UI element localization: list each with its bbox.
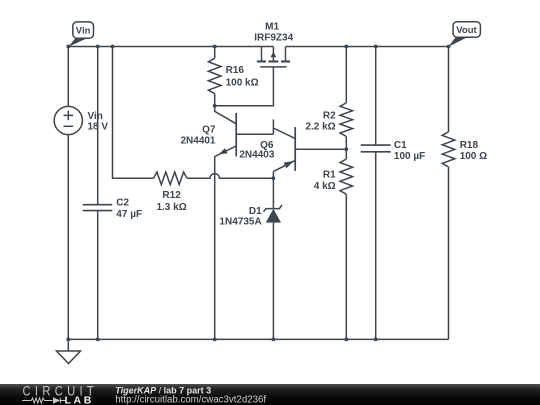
svg-text:18 V: 18 V [88,122,109,133]
wire R1 bottom lead [345,194,347,339]
svg-text:Vin: Vin [88,111,103,122]
svg-text:R18: R18 [460,140,479,151]
node Vout [447,45,451,49]
MOSFET M1 bulk stub [272,47,274,61]
MOSFET M1 gate plate [260,66,286,68]
svg-text:C2: C2 [116,198,129,209]
ground symbol [67,339,69,351]
capacitor C1 plates [361,145,391,152]
wire R18 top lead [448,47,450,132]
zener diode D1 cathode bar [264,205,283,212]
MOSFET M1 contact bar 2 [269,60,279,62]
svg-text:1N4735A: 1N4735A [219,216,261,227]
zener diode D1 anode triangle [266,209,281,223]
junction D1 / ground rail [272,338,276,342]
transistor Q6 collector lead [273,128,295,139]
svg-text:Vout: Vout [456,25,477,36]
svg-text:C1: C1 [394,140,407,151]
svg-text:R1: R1 [323,170,336,181]
transistor Q7 base bar [235,113,237,156]
svg-text:100 kΩ: 100 kΩ [226,77,259,88]
transistor Q7 emitter lead [215,146,237,339]
junction R12 branch / top rail [111,45,115,49]
svg-text:2N4401: 2N4401 [180,136,215,147]
svg-text:4 kΩ: 4 kΩ [314,181,336,192]
wire Q6 collector to Q7 base node [272,119,274,134]
wire top rail right (M1 drain to Vout node) [286,46,449,48]
transistor Q7 emitter arrow [219,148,228,154]
MOSFET M1 source stub [261,47,263,61]
wire C1 bottom lead [375,152,377,339]
svg-text:1.3 kΩ: 1.3 kΩ [156,202,186,213]
junction Q7 emitter / ground rail [213,338,217,342]
resistor R12 [154,172,188,185]
transistor Q6 base bar [294,127,296,171]
junction R2 / top rail [344,45,348,49]
resistor R16 [208,58,221,93]
junction C1 / ground rail [374,338,378,342]
wire gate node to M1 gate [215,67,274,106]
wire Q6 base to divider node [295,148,346,150]
transistor Q6 emitter lead [273,160,295,171]
capacitor C2 plates [83,205,113,211]
svg-text:D1: D1 [249,206,262,217]
CircuitLab logo wire-resistor-diode line [22,398,66,404]
transistor Q7 base lead [236,133,273,135]
svg-text:Q7: Q7 [202,125,216,136]
MOSFET M1 bulk arrow [271,52,277,58]
CircuitLab logo diode triangle [53,397,60,403]
junction R2 / R1 / Q6 base [344,147,348,151]
svg-text:IRF9Z34: IRF9Z34 [254,33,293,44]
svg-text:http://circuitlab.com/cwac3vt2: http://circuitlab.com/cwac3vt2d236f [115,394,266,405]
wire R2 top lead [345,47,347,103]
wire D1 bottom lead [272,223,274,340]
resistor R1 [340,159,353,194]
node Vin label flag [68,22,93,47]
wire C1 top lead [375,47,377,145]
wire R16 top lead [214,47,216,59]
svg-text:LAB: LAB [65,395,94,405]
MOSFET M1 drain stub [285,47,287,61]
wire D1 top lead [272,178,274,208]
junction C2 / top rail [96,45,100,49]
resistor R18 [442,132,455,167]
wire left rail below source V1 to ground [67,135,69,340]
junction C1 / top rail [374,45,378,49]
wire R18 bottom lead [448,167,450,340]
wire bottom rail [68,338,448,340]
MOSFET M1 contact bar 1 [257,60,266,62]
transistor Q7 collector lead [215,106,237,124]
resistor R2 [340,103,353,136]
wire R12 right lead with hop over Q7 emitter [187,174,273,179]
wire R2 to R1 node [345,136,347,159]
junction R12 / Q6 emitter / D1 [272,176,276,180]
wire top rail left (Vin node to M1 source/bulk) [68,46,273,48]
svg-text:47 µF: 47 µF [116,209,142,220]
voltage source Vin circle [54,106,82,134]
node Vout label flag [449,22,481,47]
junction R16 / top rail [213,45,217,49]
junction ground rail / V1 [66,338,70,342]
svg-text:M1: M1 [265,22,279,33]
svg-text:2.2 kΩ: 2.2 kΩ [305,122,335,133]
junction C2 / ground rail [96,338,100,342]
voltage source plus sign [64,111,74,121]
junction R16 / Q7 collector / M1 gate [213,104,217,108]
svg-text:R12: R12 [162,190,181,201]
wire R16 bottom lead to gate node [214,94,216,106]
svg-text:R16: R16 [226,65,245,76]
wire Q6 emitter stub to node [272,171,274,178]
wire C2 column bottom [97,211,99,339]
node Vin [66,45,70,49]
svg-text:2N4403: 2N4403 [239,149,274,160]
svg-text:100 Ω: 100 Ω [460,151,487,162]
svg-text:Vin: Vin [76,25,91,36]
svg-text:R2: R2 [323,110,336,121]
junction R1 / ground rail [344,338,348,342]
wire from top rail down to R12 [113,47,154,179]
MOSFET M1 contact bar 3 [281,60,290,62]
wire C2 column top [97,47,99,205]
svg-text:100 µF: 100 µF [394,151,425,162]
wire left rail above source V1 [67,47,69,107]
voltage source minus sign [64,125,74,127]
transistor Q6 emitter arrow [284,161,294,168]
